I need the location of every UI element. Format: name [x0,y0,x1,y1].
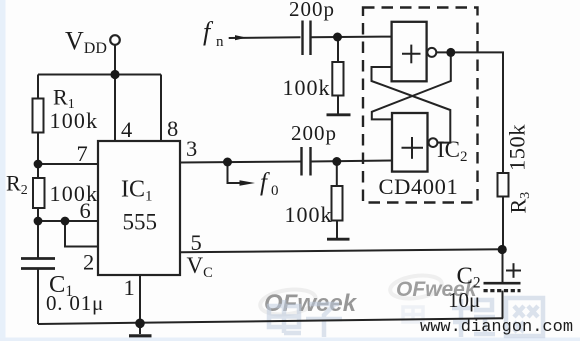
wire pin2 branch [65,221,98,247]
wire C1 to bottom rail [37,269,39,325]
capacitor 200p mid [302,147,311,176]
wire gate1 output [436,52,503,173]
wire R1 to pin7 node [37,133,39,179]
node gate1 out [446,48,455,57]
bottom rail [38,318,503,324]
node ground rail [135,319,145,329]
node pin7 [34,160,43,169]
svg-text:100k: 100k [50,181,99,206]
ground top [327,113,351,116]
IC1 box [98,141,180,275]
svg-text:3: 3 [186,136,197,161]
resistor R1 [33,99,44,133]
wire to ground top [337,96,339,115]
wire VDD rail [38,74,161,76]
wire pin6 [38,220,98,222]
ground bottom [139,323,141,334]
wire pin7 [38,163,98,165]
svg-text:150k: 150k [505,124,530,171]
node f0 [223,158,232,167]
node pin2 [61,217,70,226]
bubble U2 [429,138,438,147]
node mid RC [332,157,341,166]
cross wire A gate1out to gate2 [372,52,451,119]
svg-text:www.diangon.com: www.diangon.com [420,318,573,337]
char grid faint [403,307,423,322]
char zi [306,304,342,337]
svg-text:5: 5 [191,230,202,255]
NOR gate U1 [392,22,427,82]
wire R3 to node [502,197,504,250]
wire pin4 [114,75,116,142]
arrow f0 [240,180,256,186]
svg-text:1: 1 [124,275,135,300]
watermark OFweek B [259,286,358,318]
wire mid RC node down [336,162,338,187]
svg-text:10μ: 10μ [448,288,480,312]
svg-text:2: 2 [83,250,94,275]
svg-text:0. 01μ: 0. 01μ [46,291,104,315]
svg-text:555: 555 [123,210,158,235]
wire fn [229,36,301,39]
wire node to C2 [502,249,504,283]
node top RC [333,33,342,42]
char wang [506,298,543,336]
bubble U1 [427,48,436,57]
ground mid [327,238,350,241]
svg-text:CD4001: CD4001 [379,174,459,199]
node pin6 [34,217,43,226]
svg-text:n: n [216,34,224,50]
svg-text:100k: 100k [285,202,333,227]
VDD terminal circle [110,35,120,45]
svg-text:200p: 200p [289,0,335,21]
wire f0 branch [228,162,244,183]
wire R2 to C1 [37,208,39,258]
resistor R2 [33,178,45,208]
svg-text:100k: 100k [50,108,99,133]
wire left rail top [37,75,39,99]
capacitor C1 [21,259,55,269]
dashed box CD4001 [363,8,478,203]
svg-text:7: 7 [77,141,88,166]
char dian [269,300,301,333]
wire top RC node down [337,37,339,62]
resistor R3 [498,173,509,197]
resistor 100k mid [332,186,343,221]
node VDD [110,70,119,79]
wire pin8 [160,75,162,142]
wire VC [180,249,502,252]
bottom blue edge strip [0,338,580,341]
resistor 100k top [332,62,343,96]
wire C2 to bottom [502,291,504,319]
capacitor C2 [484,282,521,285]
char cheng [452,299,495,337]
watermark chinese 电子工程网 (drawn strokes) [269,298,543,337]
wire 200p top to gate1 [311,36,392,39]
C2 plus sign [506,270,521,272]
wire pin3 row [180,162,301,163]
svg-text:100k: 100k [283,75,331,100]
wire pin1 [139,275,141,323]
svg-text:8: 8 [167,116,178,141]
wire to ground mid [336,221,338,239]
svg-text:0: 0 [271,183,279,199]
wire 200p mid to gate2 [311,161,393,162]
svg-text:200p: 200p [291,121,337,145]
cross wire B gate2out to gate1 [372,67,451,143]
left blue edge strip [0,0,6,341]
svg-text:4: 4 [121,117,132,142]
NOR gate U2 [392,113,428,172]
wire VDD vertical [114,45,116,75]
watermark OFweek A [389,272,478,301]
svg-text:6: 6 [80,198,91,223]
arrow fn [235,35,247,40]
capacitor 200p top [303,21,311,56]
node VC R3 [498,245,507,254]
